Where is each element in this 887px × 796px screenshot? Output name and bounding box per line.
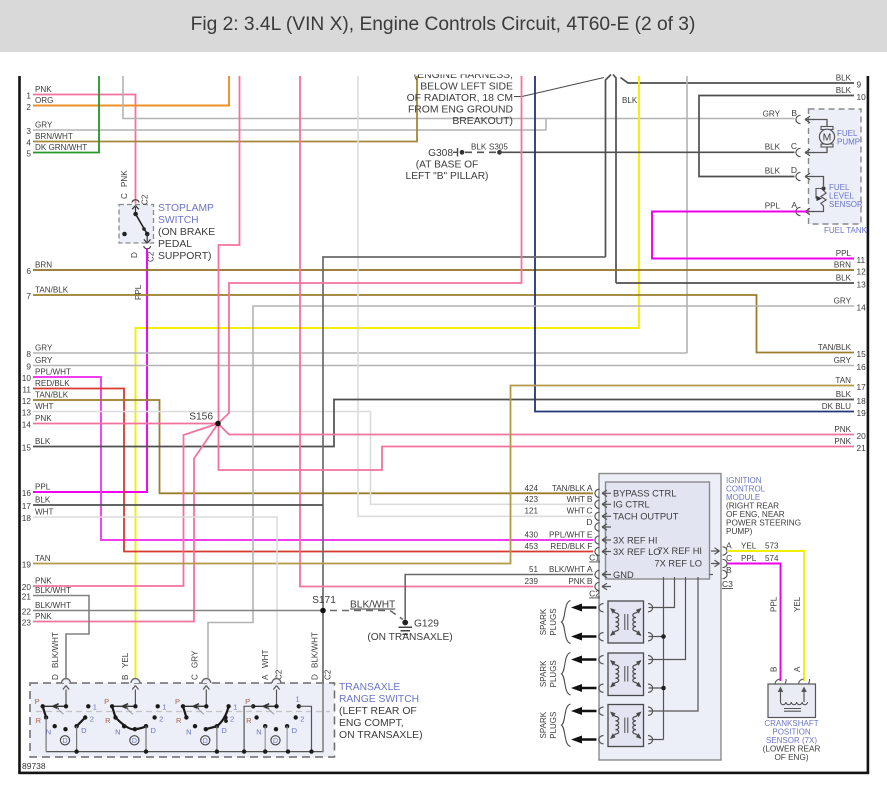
svg-text:11: 11	[857, 255, 866, 265]
svg-text:BLK: BLK	[836, 86, 852, 95]
svg-text:WHT: WHT	[567, 495, 585, 504]
wire GRY 3	[33, 119, 546, 131]
svg-text:B: B	[791, 108, 797, 118]
svg-text:GRY: GRY	[191, 650, 200, 668]
svg-text:21: 21	[857, 443, 867, 453]
svg-text:574: 574	[765, 554, 779, 563]
splice S305	[497, 150, 502, 155]
spark plug arrow coil 2	[580, 687, 597, 689]
wire TAN/BLK 7 to 15	[33, 295, 854, 353]
svg-text:D: D	[51, 674, 60, 680]
svg-text:PPL: PPL	[35, 483, 51, 492]
svg-text:TAN/BLK: TAN/BLK	[35, 286, 69, 295]
svg-text:N: N	[256, 727, 261, 736]
wire PNK S156 riser jog	[219, 76, 240, 424]
junction coil2 low	[661, 686, 666, 691]
coil secondary common wire	[649, 577, 664, 740]
svg-text:B: B	[587, 494, 593, 504]
svg-text:BLK/WHT: BLK/WHT	[311, 632, 320, 668]
svg-text:18: 18	[857, 396, 867, 406]
svg-text:RED/BLK: RED/BLK	[550, 542, 585, 551]
fuel pump connector B	[796, 115, 801, 123]
wire GRY 14 to transaxle C	[208, 306, 854, 683]
svg-text:LEFT "B" PILLAR): LEFT "B" PILLAR)	[406, 171, 489, 182]
crank sensor entry arcs	[775, 679, 786, 684]
svg-text:PPL: PPL	[836, 249, 852, 258]
svg-text:R: R	[105, 716, 111, 725]
svg-text:F: F	[587, 541, 592, 551]
ground G129	[402, 620, 408, 626]
svg-text:WHT: WHT	[35, 402, 53, 411]
wire coil2 high to ICM	[649, 577, 686, 660]
svg-text:424: 424	[524, 484, 538, 493]
svg-text:PPL/WHT: PPL/WHT	[35, 368, 71, 377]
svg-text:20: 20	[22, 582, 32, 592]
wire BRN/WHT 4	[33, 76, 417, 142]
stoplamp switch contacts	[133, 212, 138, 217]
svg-text:C2: C2	[324, 669, 333, 680]
svg-text:C: C	[191, 674, 200, 680]
svg-text:ORG: ORG	[35, 96, 53, 105]
svg-text:R: R	[176, 716, 182, 725]
svg-text:12: 12	[857, 267, 867, 277]
svg-text:4: 4	[26, 138, 31, 148]
transaxle switch group 1	[62, 679, 71, 683]
svg-text:21: 21	[22, 592, 32, 602]
svg-text:89738: 89738	[22, 761, 46, 771]
svg-text:BLK/WHT: BLK/WHT	[35, 586, 71, 595]
svg-text:WHT: WHT	[567, 507, 585, 516]
svg-text:BLK: BLK	[765, 167, 781, 176]
svg-text:TAN/BLK: TAN/BLK	[818, 343, 852, 352]
junction coil1 low	[661, 634, 666, 639]
svg-text:D: D	[273, 738, 278, 745]
svg-text:23: 23	[22, 618, 32, 628]
wire BLK 13 right	[616, 282, 854, 284]
wire WHT vertical to ICM C	[358, 76, 593, 516]
ignition coil 1	[608, 601, 644, 643]
ground G308 symbol	[453, 148, 458, 157]
svg-text:ENG COMPT,: ENG COMPT,	[339, 718, 404, 729]
svg-text:PPL: PPL	[770, 596, 779, 612]
stoplamp switch box	[119, 205, 154, 244]
svg-text:(ON TRANSAXLE): (ON TRANSAXLE)	[367, 632, 452, 643]
svg-text:7X REF LO: 7X REF LO	[654, 559, 702, 569]
ICM right pin arrows	[710, 548, 720, 575]
wire BRN 6	[33, 269, 854, 271]
wire TAN/BLK 12 to ICM A	[33, 400, 593, 493]
svg-text:5: 5	[26, 149, 31, 159]
svg-text:14: 14	[22, 420, 32, 430]
svg-text:C: C	[726, 553, 732, 563]
svg-text:A: A	[791, 200, 797, 210]
svg-text:BRN: BRN	[834, 261, 851, 270]
blade P-R group 1	[43, 706, 46, 717]
svg-text:TACH OUTPUT: TACH OUTPUT	[613, 512, 679, 522]
svg-text:B: B	[770, 667, 779, 672]
ground G (engine ground, top)	[606, 75, 612, 258]
svg-text:C2: C2	[589, 589, 600, 599]
svg-text:3X REF HI: 3X REF HI	[613, 536, 657, 546]
svg-text:BLK/WHT: BLK/WHT	[549, 565, 585, 574]
wire BLK ground to S171	[323, 257, 606, 683]
svg-text:P: P	[104, 697, 109, 706]
frame left border	[18, 76, 21, 773]
wire BLK S305 to fuel pump C	[500, 151, 795, 153]
stoplamp switch blade	[136, 214, 148, 234]
svg-text:RANGE SWITCH: RANGE SWITCH	[339, 694, 419, 705]
svg-text:430: 430	[524, 531, 538, 540]
svg-text:P: P	[245, 697, 250, 706]
svg-text:PNK: PNK	[35, 414, 52, 423]
svg-text:1: 1	[296, 695, 300, 704]
svg-text:C: C	[791, 141, 797, 151]
wire PNK S156 to 21	[219, 424, 855, 471]
wire YEL 573 to crank sensor	[727, 551, 804, 681]
wire GRY 9 to 16	[33, 365, 854, 367]
svg-text:SPARK: SPARK	[539, 711, 548, 738]
svg-text:2: 2	[230, 714, 234, 723]
svg-text:N: N	[186, 727, 191, 736]
svg-text:PNK: PNK	[568, 577, 585, 586]
svg-text:N: N	[115, 727, 120, 736]
fuel tank connector D	[796, 172, 801, 180]
wire coil1 high to ICM	[649, 577, 675, 608]
svg-text:8: 8	[26, 349, 31, 359]
svg-text:PNK: PNK	[35, 577, 52, 586]
svg-text:STOPLAMP: STOPLAMP	[158, 203, 214, 214]
svg-text:A: A	[726, 541, 732, 551]
svg-text:SWITCH: SWITCH	[158, 215, 199, 226]
frame bottom border	[18, 772, 869, 775]
svg-text:E: E	[587, 530, 593, 540]
svg-text:D: D	[62, 738, 67, 745]
svg-text:16: 16	[22, 488, 32, 498]
svg-text:GRY: GRY	[834, 297, 852, 306]
wire GRY to fuel pump B	[123, 76, 795, 119]
transaxle detent rail	[36, 711, 330, 713]
stoplamp entry arrow	[132, 206, 139, 214]
stoplamp connector C arc	[132, 200, 139, 203]
svg-text:D: D	[311, 674, 320, 680]
wire PNK S156 to riser 21	[218, 76, 522, 424]
svg-text:WHT: WHT	[261, 650, 270, 668]
stoplamp exit connector D arc	[144, 246, 151, 249]
svg-text:22: 22	[22, 607, 32, 617]
wire BLK/WHT 21 to transaxle	[33, 596, 89, 684]
splice S171	[320, 608, 326, 614]
svg-text:6: 6	[26, 266, 31, 276]
ignition control module outer box	[599, 474, 721, 761]
splice S156	[215, 421, 221, 427]
spark plugs brace coil 3	[562, 704, 571, 747]
svg-text:PNK: PNK	[35, 612, 52, 621]
svg-text:BRN: BRN	[35, 261, 52, 270]
svg-text:DK BLU: DK BLU	[822, 402, 851, 411]
svg-text:PPL: PPL	[765, 202, 781, 211]
svg-text:PLUGS: PLUGS	[549, 660, 558, 687]
svg-text:BLK: BLK	[836, 274, 852, 283]
svg-text:GRY: GRY	[35, 121, 53, 130]
svg-text:D: D	[81, 726, 87, 735]
svg-text:D: D	[151, 726, 157, 735]
svg-text:18: 18	[22, 513, 32, 523]
svg-text:YEL: YEL	[741, 542, 757, 551]
wire WHT 13 to ICM B	[33, 412, 593, 505]
stoplamp exit arrow	[144, 234, 151, 243]
wire PPL 574 to crank sensor	[727, 564, 781, 682]
wire YEL	[136, 76, 640, 683]
svg-text:BRN/WHT: BRN/WHT	[35, 132, 73, 141]
wire PNK S156 to 20	[218, 424, 854, 435]
svg-text:BLK: BLK	[471, 143, 487, 152]
transaxle switch group 3	[202, 679, 211, 683]
fuel pump motor	[813, 120, 827, 128]
spark plug arrow coil 3	[580, 710, 597, 712]
wire DK BLU 19	[535, 76, 854, 412]
wire ORG 2	[33, 76, 229, 106]
wire BLK 17	[33, 504, 323, 506]
svg-text:BLK: BLK	[35, 496, 51, 505]
svg-text:A: A	[587, 564, 593, 574]
svg-text:GRY: GRY	[35, 356, 53, 365]
wire BLK/WHT 22 to S171	[33, 610, 323, 612]
svg-text:OF RADIATOR, 18 CM: OF RADIATOR, 18 CM	[407, 93, 513, 104]
wire TAN 19 to 17	[33, 386, 854, 564]
svg-text:GRY: GRY	[834, 356, 852, 365]
svg-text:B: B	[121, 675, 130, 680]
svg-text:BREAKOUT): BREAKOUT)	[452, 116, 513, 127]
svg-text:3X REF LO: 3X REF LO	[613, 547, 661, 557]
svg-text:DK GRN/WHT: DK GRN/WHT	[35, 143, 87, 152]
transaxle switch group 4	[272, 679, 281, 683]
svg-text:2: 2	[300, 714, 304, 723]
spark plugs brace coil 2	[562, 653, 571, 696]
svg-text:19: 19	[22, 560, 32, 570]
svg-text:D: D	[292, 726, 298, 735]
wire PNK S156 to row23	[33, 424, 218, 622]
wire PNK 14 to S156	[33, 423, 218, 425]
svg-text:TRANSAXLE: TRANSAXLE	[339, 682, 400, 693]
wire RED/BLK 11 to ICM F	[33, 389, 593, 552]
wire WHT 18 to transaxle A	[33, 517, 277, 683]
ignition coil 2	[608, 653, 644, 696]
svg-text:D: D	[130, 252, 139, 258]
svg-text:SPARK: SPARK	[539, 608, 548, 635]
svg-text:D: D	[586, 517, 592, 527]
wire PNK 239 to ICM B2	[300, 76, 593, 587]
header band	[0, 0, 887, 52]
svg-text:A: A	[793, 666, 802, 672]
svg-text:B: B	[587, 576, 593, 586]
svg-text:573: 573	[765, 542, 779, 551]
svg-text:BLK/WHT: BLK/WHT	[51, 632, 60, 668]
svg-text:FUEL TANK: FUEL TANK	[824, 226, 868, 235]
svg-text:BLK: BLK	[622, 96, 638, 105]
wire PPL from stoplamp to row 16	[33, 249, 147, 493]
svg-text:Fig 2: 3.4L (VIN X), Engine Co: Fig 2: 3.4L (VIN X), Engine Controls Cir…	[191, 14, 696, 35]
svg-text:GND: GND	[613, 570, 634, 580]
svg-text:PUMP: PUMP	[837, 138, 860, 147]
svg-text:YEL: YEL	[121, 652, 130, 668]
svg-text:C3: C3	[722, 579, 733, 589]
svg-text:15: 15	[22, 443, 32, 453]
svg-text:11: 11	[22, 385, 31, 395]
svg-text:10: 10	[22, 373, 32, 383]
ICM right connector arcs	[723, 547, 728, 579]
svg-text:20: 20	[857, 431, 867, 441]
svg-text:G129: G129	[414, 619, 439, 630]
wire GRY 8	[33, 352, 687, 354]
svg-text:12: 12	[22, 396, 32, 406]
svg-text:1: 1	[162, 702, 166, 711]
spark plug arrow coil 1	[580, 606, 597, 608]
svg-text:S171: S171	[312, 595, 336, 606]
svg-text:PLUGS: PLUGS	[549, 608, 558, 635]
svg-text:BLK/WHT: BLK/WHT	[350, 600, 395, 611]
svg-text:13: 13	[857, 280, 867, 290]
fuel tank connector A	[796, 207, 801, 215]
ICM left pin arrows	[602, 490, 611, 590]
svg-text:BELOW LEFT SIDE: BELOW LEFT SIDE	[420, 82, 513, 93]
svg-text:9: 9	[26, 362, 31, 372]
svg-text:2: 2	[26, 102, 31, 112]
fuel level sensor	[813, 177, 824, 187]
svg-text:1: 1	[93, 702, 97, 711]
ignition control module inner box	[606, 482, 710, 579]
svg-text:BLK/WHT: BLK/WHT	[35, 601, 71, 610]
svg-text:YEL: YEL	[793, 596, 802, 612]
spark plug arrow coil 2	[580, 658, 597, 660]
svg-text:PEDAL: PEDAL	[158, 239, 192, 250]
svg-text:P: P	[175, 697, 180, 706]
svg-text:PNK: PNK	[834, 437, 851, 446]
svg-text:A: A	[587, 483, 593, 493]
svg-text:PNK: PNK	[834, 425, 851, 434]
svg-text:17: 17	[22, 501, 32, 511]
crank sensor pickup coil	[781, 702, 808, 705]
wire BLK/WHT dashed S171 to G129	[330, 611, 403, 620]
svg-text:PNK: PNK	[35, 85, 52, 94]
svg-text:C1: C1	[589, 553, 600, 563]
blade P-R group 3	[183, 706, 186, 717]
svg-text:A: A	[261, 674, 270, 680]
svg-text:D: D	[791, 165, 797, 175]
wire PPL fuel A to 11	[652, 212, 854, 259]
wire DK GRN/WHT 5	[33, 76, 99, 153]
svg-text:C: C	[120, 193, 129, 199]
svg-text:(ON BRAKE: (ON BRAKE	[158, 227, 215, 238]
crankshaft position sensor box	[768, 684, 816, 718]
svg-text:17: 17	[857, 382, 867, 392]
svg-text:S305: S305	[489, 143, 508, 152]
svg-text:7X REF HI: 7X REF HI	[658, 546, 702, 556]
svg-text:TAN: TAN	[35, 554, 51, 563]
wire BLK 15 to 18	[33, 400, 854, 447]
svg-text:TAN/BLK: TAN/BLK	[552, 484, 586, 493]
svg-text:SPARK: SPARK	[539, 660, 548, 687]
callout leader line	[514, 78, 604, 97]
svg-text:BYPASS CTRL: BYPASS CTRL	[613, 489, 676, 499]
wire BLK ground branch right	[613, 75, 616, 284]
svg-text:D: D	[132, 738, 137, 745]
svg-text:SENSOR: SENSOR	[829, 200, 863, 209]
svg-text:ON TRANSAXLE): ON TRANSAXLE)	[339, 730, 423, 741]
wire PPL/WHT 10 to ICM E	[33, 377, 593, 540]
ignition coil 3	[608, 705, 644, 747]
spark plugs brace coil 1	[562, 601, 571, 644]
svg-text:SUPPORT): SUPPORT)	[158, 251, 212, 262]
crank sensor lead arrows	[780, 691, 782, 702]
transaxle range switch box	[30, 683, 335, 757]
svg-text:BLK: BLK	[765, 143, 781, 152]
svg-text:R: R	[36, 716, 42, 725]
svg-text:BLK: BLK	[836, 74, 852, 83]
svg-text:9: 9	[857, 80, 862, 90]
svg-text:OF ENG): OF ENG)	[774, 753, 808, 762]
wire PNK S156 to row20 left	[33, 424, 218, 587]
svg-text:M: M	[823, 133, 832, 144]
svg-text:WHT: WHT	[35, 508, 53, 517]
svg-text:3: 3	[26, 126, 31, 136]
svg-text:51: 51	[529, 565, 539, 574]
svg-text:1: 1	[26, 91, 31, 101]
svg-text:IG CTRL: IG CTRL	[613, 500, 650, 510]
transaxle switch group 2	[131, 679, 140, 683]
svg-text:PLUGS: PLUGS	[549, 712, 558, 739]
fuel tank box	[809, 109, 862, 224]
spark plug arrow coil 3	[580, 738, 597, 740]
svg-text:P: P	[35, 697, 40, 706]
svg-text:FROM ENG GROUND: FROM ENG GROUND	[408, 105, 513, 116]
svg-text:PNK: PNK	[120, 170, 129, 187]
svg-text:B: B	[726, 565, 732, 575]
wire BLK 10	[699, 96, 854, 177]
svg-text:PPL: PPL	[134, 284, 143, 300]
transaxle entry 5 vertical	[322, 683, 324, 752]
transaxle bottom bus	[46, 751, 323, 753]
fuel pump connector C	[796, 148, 801, 156]
svg-text:GRY: GRY	[35, 344, 53, 353]
svg-text:121: 121	[524, 507, 538, 516]
svg-text:R: R	[246, 716, 252, 725]
wire coil3 high to ICM	[649, 577, 699, 711]
svg-text:BLK: BLK	[836, 390, 852, 399]
spark plug arrow coil 1	[580, 635, 597, 637]
svg-text:239: 239	[524, 577, 538, 586]
frame right border	[867, 76, 870, 773]
svg-text:2: 2	[159, 714, 163, 723]
svg-text:G308: G308	[428, 148, 453, 159]
wire PNK 1	[33, 95, 136, 204]
wire GRY vertical to row 8	[686, 76, 688, 353]
svg-text:PPL/WHT: PPL/WHT	[549, 531, 585, 540]
svg-text:D: D	[203, 738, 208, 745]
svg-text:TAN/BLK: TAN/BLK	[35, 391, 69, 400]
blade P-R group 2	[112, 706, 115, 717]
wire BLK 9	[621, 78, 855, 84]
svg-text:14: 14	[857, 303, 867, 313]
wire BLK G308 dashed to S305	[465, 151, 497, 153]
svg-text:(LEFT REAR OF: (LEFT REAR OF	[339, 706, 417, 717]
svg-text:S156: S156	[189, 412, 213, 423]
svg-text:10: 10	[857, 92, 867, 102]
svg-text:PPL: PPL	[741, 554, 757, 563]
svg-text:13: 13	[22, 408, 32, 418]
svg-text:1: 1	[233, 702, 237, 711]
svg-text:15: 15	[857, 349, 867, 359]
svg-text:423: 423	[524, 495, 538, 504]
